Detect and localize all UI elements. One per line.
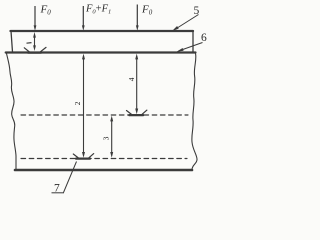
svg-text:2: 2	[74, 101, 82, 105]
svg-text:4: 4	[128, 77, 136, 81]
block left break (wavy)	[7, 54, 17, 170]
lower dashed settlement line	[21, 158, 187, 160]
force arrow F0 right	[136, 5, 139, 31]
force arrow F0 left	[34, 6, 37, 31]
leader 6	[177, 43, 203, 52]
plate left edge	[11, 31, 13, 52]
block 7 bottom line	[15, 169, 192, 172]
settlement mark at bottom of dim 2	[73, 154, 93, 159]
tiny lambda label	[27, 42, 32, 45]
force arrow F0+F1 middle	[82, 6, 85, 31]
settlement mark at joint under lambda dim	[24, 47, 46, 52]
leader 7	[64, 162, 77, 193]
leader 5	[172, 15, 199, 32]
dimension 4 (x=136.7, joint line to upper dashed)	[135, 54, 138, 115]
settlement mark at bottom of dim 4	[127, 110, 147, 115]
plate right edge	[192, 31, 194, 53]
small plate-compression dimension (lambda)	[27, 32, 36, 51]
block right break (wavy)	[192, 54, 197, 170]
joint line 6 (top of block)	[6, 51, 196, 53]
dimension 2 (x=83.5, joint line to lower dashed)	[82, 54, 85, 158]
svg-text:F0+F1: F0+F1	[85, 3, 111, 15]
dimension 3 (x=111.7, between dashed lines)	[110, 116, 113, 158]
upper dashed settlement line	[21, 114, 188, 116]
svg-text:3: 3	[103, 136, 111, 140]
plate 5 top line	[11, 30, 194, 32]
